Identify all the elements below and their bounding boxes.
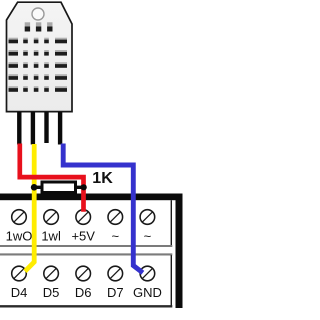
terminal block right edge bar <box>176 194 183 309</box>
svg-text:~: ~ <box>144 229 152 244</box>
vent row 2 <box>9 38 68 44</box>
svg-text:D5: D5 <box>43 285 60 300</box>
terminal block top edge band <box>0 194 183 201</box>
vent row 6 <box>9 86 68 92</box>
sensor U1 body (DHT housing) <box>7 2 73 111</box>
screw terminal D5 <box>44 266 59 281</box>
pin 3 (NC) <box>44 112 48 143</box>
svg-text:~: ~ <box>112 229 120 244</box>
resistor R1 body <box>42 182 76 193</box>
pin 4 (GND) <box>58 112 62 145</box>
resistor R1 left lead <box>33 186 41 189</box>
screw terminal 1wO <box>12 210 27 225</box>
upper terminal box bottom border (gray) <box>0 245 172 247</box>
svg-text:D7: D7 <box>107 285 124 300</box>
screw terminal ~b <box>140 210 155 225</box>
screw terminal D4 <box>12 266 27 281</box>
mounting hole <box>32 8 44 20</box>
svg-text:1wl: 1wl <box>41 229 61 244</box>
svg-text:D6: D6 <box>75 285 92 300</box>
screw terminal D6 <box>76 266 91 281</box>
upper terminal box right border <box>170 200 172 247</box>
pin 1 (VCC) <box>17 112 21 145</box>
svg-text:+5V: +5V <box>71 229 95 244</box>
wire: red VCC (pin1 to +5V terminal) <box>20 144 84 212</box>
svg-text:GND: GND <box>133 285 162 300</box>
vent row 1 (small squares) <box>25 22 53 31</box>
screw terminal GND <box>140 266 155 281</box>
lower terminal box right border <box>170 255 172 306</box>
vent row 3 <box>9 50 68 56</box>
wire: yellow DATA (pin2 to D4) <box>25 144 34 271</box>
wire: blue GND (pin4 to GND terminal) <box>63 144 143 273</box>
svg-text:D4: D4 <box>11 285 28 300</box>
pin 2 (DATA) <box>31 112 35 145</box>
lower terminal box top border (gray) <box>0 253 172 255</box>
resistor R1 right lead <box>76 186 86 189</box>
vent row 5 <box>9 74 68 80</box>
vent row 4 <box>9 62 68 68</box>
junction dot A (data/resistor) <box>31 184 38 191</box>
screw terminal +5V <box>76 210 91 225</box>
screw terminal ~a <box>108 210 123 225</box>
junction dot B (resistor/+5V) <box>81 184 87 190</box>
screw terminal D7 <box>108 266 123 281</box>
screw terminal 1wl <box>44 210 59 225</box>
svg-text:1K: 1K <box>92 170 113 187</box>
lower terminal box bottom border <box>0 305 172 307</box>
svg-text:1wO: 1wO <box>6 229 33 244</box>
